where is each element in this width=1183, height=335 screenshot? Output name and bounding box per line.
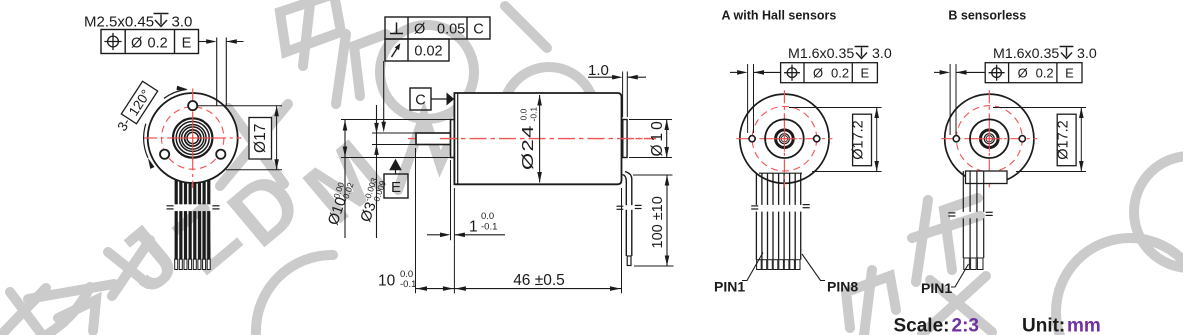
side view tolerance frame runout xyxy=(385,39,449,61)
view A mounting holes xyxy=(749,136,755,142)
view B center lines xyxy=(941,138,1037,140)
svg-text:Ø10: Ø10 xyxy=(649,118,666,156)
side view red axis over body xyxy=(440,138,656,140)
view A wire slot chord xyxy=(759,172,802,174)
left view tapped hole projection lines and arrows xyxy=(216,38,218,106)
view B wire break marks xyxy=(948,212,955,214)
svg-text:0.02: 0.02 xyxy=(414,44,442,60)
svg-text:Unit:: Unit: xyxy=(1022,316,1065,335)
side view datum C xyxy=(410,88,431,110)
side view motor body xyxy=(454,93,621,184)
svg-text:46 ±0.5: 46 ±0.5 xyxy=(513,272,565,289)
view B bolt circle xyxy=(956,106,1022,172)
left view position tolerance frame xyxy=(101,30,199,54)
view A wires lower xyxy=(756,212,800,260)
svg-text:3.0: 3.0 xyxy=(872,46,892,62)
svg-text:M1.6x0.35: M1.6x0.35 xyxy=(788,46,854,62)
side view shaft xyxy=(416,133,451,145)
svg-text:-0.1: -0.1 xyxy=(529,107,539,122)
svg-text:3.0: 3.0 xyxy=(1077,46,1097,62)
view A center lines xyxy=(736,138,832,140)
view A hub rings xyxy=(765,119,804,158)
svg-text:C: C xyxy=(473,22,483,38)
svg-text:100 ±10: 100 ±10 xyxy=(650,196,666,248)
view A tapped hole projection lines xyxy=(730,71,739,73)
svg-text:E: E xyxy=(182,35,192,51)
svg-text:PIN1: PIN1 xyxy=(714,279,745,295)
svg-text:E: E xyxy=(1065,66,1074,81)
svg-text:10: 10 xyxy=(378,273,396,290)
svg-text:mm: mm xyxy=(1067,316,1101,335)
side view datum E xyxy=(389,159,402,171)
svg-text:M1.6x0.35: M1.6x0.35 xyxy=(993,46,1059,62)
svg-text:M2.5x0.45: M2.5x0.45 xyxy=(84,13,154,30)
view A wire ends xyxy=(757,260,800,270)
side view red axis center line xyxy=(408,138,656,140)
left view center lines xyxy=(144,137,241,139)
view B wire ends xyxy=(964,258,983,270)
svg-text:Ø: Ø xyxy=(1018,66,1028,81)
svg-text:0.2: 0.2 xyxy=(1036,66,1054,81)
svg-text:3.0: 3.0 xyxy=(172,13,193,30)
side view dimension D10 front boss xyxy=(341,119,451,121)
svg-text:Ø17: Ø17 xyxy=(252,124,269,153)
svg-text:Ø24: Ø24 xyxy=(520,124,537,170)
left view wire break marks xyxy=(167,205,174,207)
svg-text:1: 1 xyxy=(469,219,478,236)
svg-text:0.05: 0.05 xyxy=(437,22,465,38)
svg-text:C: C xyxy=(415,93,425,109)
svg-text:Ø: Ø xyxy=(131,35,142,51)
svg-text:0.0: 0.0 xyxy=(481,211,494,222)
view A wires upper xyxy=(756,173,800,205)
view A dimension D17.2 xyxy=(789,107,882,109)
view A position tolerance frame xyxy=(781,63,878,83)
left view motor body circle xyxy=(148,93,238,183)
left view hub center cross overlay xyxy=(171,137,215,139)
svg-text:Ø17.2: Ø17.2 xyxy=(851,120,867,160)
side view pilot boss xyxy=(451,120,455,158)
svg-text:Ø17.2: Ø17.2 xyxy=(1055,120,1071,160)
left view dimension D17 xyxy=(197,105,282,107)
view A hub center cross overlay xyxy=(771,138,797,140)
view B hub center cross overlay xyxy=(976,138,1002,140)
svg-text:Ø: Ø xyxy=(414,22,425,38)
svg-text:2:3: 2:3 xyxy=(952,316,979,335)
view A PIN1 label xyxy=(742,253,763,281)
svg-text:Scale:: Scale: xyxy=(894,316,950,335)
side view dimension D3 shaft xyxy=(372,132,416,134)
side view cable xyxy=(623,175,627,257)
side view dimension 46 +-0.5 body length xyxy=(621,188,623,293)
view B dimension D17.2 xyxy=(993,107,1086,109)
view A bolt circle xyxy=(752,106,817,171)
left view wires (8 leads) xyxy=(175,170,211,204)
side view rear boss xyxy=(623,120,627,158)
side view dimension 100 +-10 cable xyxy=(633,174,673,176)
svg-text:1.0: 1.0 xyxy=(588,62,609,79)
side view dimension D24 xyxy=(539,95,541,183)
view B tapped hole projection lines xyxy=(934,71,941,73)
left view hub concentric rings xyxy=(173,118,212,157)
side view dimension 10 shaft length xyxy=(415,148,417,293)
side view tolerance frame perpendicularity xyxy=(385,17,490,39)
svg-text:E: E xyxy=(860,66,869,81)
svg-text:E: E xyxy=(391,179,401,196)
side view dimension 1 boss length xyxy=(450,160,452,240)
svg-text:0.0: 0.0 xyxy=(519,108,529,120)
view B mounting holes xyxy=(953,136,959,142)
svg-text:-0.1: -0.1 xyxy=(481,222,497,233)
view A wire break marks xyxy=(751,205,758,207)
side view dimension D10 rear xyxy=(629,119,672,121)
left view 120deg arc with arrows xyxy=(164,89,187,98)
left view wire ends xyxy=(175,259,211,269)
view B wire exit block xyxy=(966,171,1008,184)
svg-text:0.2: 0.2 xyxy=(831,66,849,81)
view B motor circle xyxy=(945,94,1034,183)
side view frame leader line xyxy=(383,61,385,127)
left view label 3-120deg xyxy=(114,81,158,135)
left view mounting holes 3x M2.5 xyxy=(160,101,225,159)
svg-text:PIN8: PIN8 xyxy=(827,279,858,295)
view B wires lower xyxy=(963,218,983,258)
view A PIN8 label xyxy=(802,254,825,281)
svg-text:A with Hall sensors: A with Hall sensors xyxy=(722,9,837,23)
view B wires upper xyxy=(963,171,983,212)
view B hub rings xyxy=(970,119,1009,158)
svg-text:Ø: Ø xyxy=(813,66,823,81)
view B position tolerance frame xyxy=(985,63,1082,83)
svg-text:PIN1: PIN1 xyxy=(921,280,952,296)
view B PIN1 label xyxy=(951,264,969,287)
left view bolt circle (red dashed) xyxy=(162,107,224,169)
svg-text:-0.1: -0.1 xyxy=(400,279,416,290)
svg-text:0.2: 0.2 xyxy=(148,35,168,51)
left view lower wires xyxy=(175,211,211,259)
view A motor circle xyxy=(740,94,829,183)
svg-text:B sensorless: B sensorless xyxy=(948,9,1026,23)
